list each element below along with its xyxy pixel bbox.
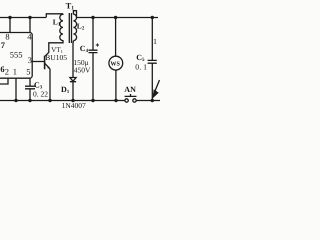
node: junction C4 ground: [91, 99, 94, 102]
capacitor C5 plates: [148, 60, 157, 63]
svg-text:1: 1: [153, 37, 157, 46]
node: junction pin4 rail: [28, 16, 31, 19]
pushbutton AN contacts: [125, 99, 128, 102]
svg-text:4: 4: [27, 32, 32, 42]
node: junction D1 ground: [71, 99, 74, 102]
node: junction pin8 rail: [8, 16, 11, 19]
wire: pin 1 down to ground rail: [15, 78, 17, 100]
svg-text:8: 8: [5, 32, 9, 42]
capacitor C4 plates: [89, 50, 98, 52]
svg-text:WS: WS: [110, 61, 120, 68]
node: junction WS ground: [114, 99, 117, 102]
wire: drop to pin 8: [9, 18, 11, 33]
svg-text:5: 5: [26, 67, 30, 77]
wire: drop to pin 4: [29, 18, 31, 33]
pushbutton AN actuator bar: [125, 94, 137, 96]
transistor VT1 collector lead: [45, 41, 63, 57]
wire: emitter down to ground rail: [49, 69, 51, 101]
wire: pin 2 stub going left: [0, 78, 8, 84]
wire: down to C5: [151, 18, 153, 61]
wire: ground rail right of button: [136, 100, 160, 102]
wire: L2 bottom to D1 branch: [72, 41, 74, 78]
transistor Q1 VT1 BU105 base bar: [44, 56, 46, 70]
transformer T1 secondary winding L2: [73, 14, 76, 40]
diode D1 1N4007: [70, 78, 76, 82]
node: junction emitter ground: [48, 99, 51, 102]
svg-text:BU105: BU105: [45, 53, 67, 62]
svg-text:2: 2: [5, 67, 9, 77]
svg-text:3: 3: [28, 55, 32, 65]
node: junction right edge rail: [151, 16, 154, 19]
wire: D1 to ground rail: [72, 82, 74, 101]
wire: jog up over to transformer primary top: [46, 14, 63, 18]
IC U1 555 timer box: [0, 33, 32, 79]
capacitor C3: [25, 86, 35, 100]
wire: pin 3 output to transistor base: [32, 61, 44, 63]
wire: top-right supply rail: [77, 17, 159, 19]
svg-text:450V: 450V: [74, 65, 91, 74]
svg-text:1: 1: [13, 67, 17, 77]
wire: L2 top jog to right rail: [73, 11, 76, 18]
wire: top-left supply rail: [0, 17, 46, 19]
transistor VT1 emitter arrowhead: [47, 66, 50, 69]
wire: C5 down to ground rail: [151, 63, 153, 100]
wire: WS down to ground rail: [115, 70, 117, 101]
wire: ground rail left of button: [0, 100, 125, 102]
capacitor C4 plus sign: [96, 43, 99, 46]
node: junction C3 ground: [28, 99, 31, 102]
transformer T1 core: [69, 13, 71, 43]
svg-text:7: 7: [1, 40, 6, 50]
transformer T1 primary winding L1: [60, 14, 63, 41]
instrument WS circle: [109, 56, 123, 70]
node: junction pin1 ground: [14, 99, 17, 102]
wire: C4 down to ground rail: [92, 53, 94, 101]
node: junction C5 ground: [151, 99, 154, 102]
wire: down to C4: [92, 18, 94, 51]
svg-text:0. 22: 0. 22: [33, 90, 48, 99]
svg-text:0. 1: 0. 1: [135, 62, 147, 71]
svg-text:555: 555: [10, 49, 23, 59]
node: junction WS rail: [114, 16, 117, 19]
svg-text:1N4007: 1N4007: [62, 101, 86, 110]
wire: pin 5 down to C3: [29, 78, 31, 86]
svg-text:AN: AN: [124, 85, 136, 94]
wire: down to WS meter: [115, 18, 117, 57]
transistor VT1 emitter lead with arrow: [45, 63, 50, 69]
node: junction C4 rail: [91, 16, 94, 19]
thyristor VS arrow at right edge: [155, 80, 160, 91]
